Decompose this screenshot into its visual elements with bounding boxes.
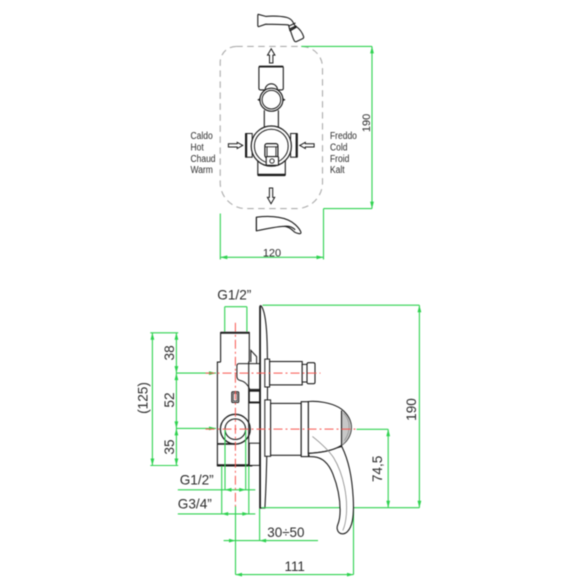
handle flange <box>265 400 271 456</box>
arrows at body edge (centerline ticks) <box>209 371 216 375</box>
svg-text:120: 120 <box>263 247 281 259</box>
dim 111 line <box>236 574 354 576</box>
green dimension lines (bottom drawing) <box>150 305 419 574</box>
arrowheads 120 <box>220 255 227 259</box>
plate-left extension for 30÷50 <box>259 509 261 541</box>
upper boss behind plate <box>237 364 260 390</box>
svg-text:111: 111 <box>285 559 305 574</box>
svg-text:190: 190 <box>361 114 373 132</box>
dim 120 extension right <box>323 209 325 260</box>
body step line tangent to port circle <box>217 443 235 445</box>
lever highlight line <box>312 436 346 530</box>
valve top rectangle thick top edge <box>259 66 283 68</box>
dim 74,5 extension <box>357 428 389 430</box>
dim 190 line <box>371 46 373 208</box>
extension at shower centerline <box>176 372 216 374</box>
tube between circles <box>264 110 278 128</box>
base rectangle below valve <box>258 158 286 176</box>
svg-text:Hot: Hot <box>191 142 205 153</box>
dim 190 extension top <box>301 45 372 47</box>
G1/2 bottom label line <box>178 489 256 491</box>
dim (125) line <box>151 333 153 466</box>
green dimensions of top diagram <box>220 46 372 259</box>
chain dim line 38-52-35 <box>175 333 177 466</box>
dim 120 extension left <box>219 214 221 260</box>
right port block <box>291 134 298 158</box>
shower outlet barrel <box>270 362 303 385</box>
svg-text:G1/2”: G1/2” <box>180 473 214 488</box>
top supply pipe <box>221 333 250 363</box>
svg-text:52: 52 <box>162 392 177 407</box>
svg-text:G3/4”: G3/4” <box>178 497 212 512</box>
svg-text:190: 190 <box>404 398 419 421</box>
small circle inner <box>262 90 281 109</box>
handle lever (drawn over green) <box>308 447 353 534</box>
svg-text:Chaud: Chaud <box>191 153 216 164</box>
handle dome <box>308 401 351 453</box>
arrowheads 111 <box>236 573 243 577</box>
cartridge plate <box>266 157 278 166</box>
dim G1/2 top bracket <box>225 306 247 308</box>
tub spout icon <box>256 217 301 234</box>
wall plate <box>260 306 268 508</box>
handle cup <box>271 403 302 455</box>
body bottom thick edge <box>217 464 252 466</box>
dim 74,5 line <box>387 429 389 507</box>
handle tip vertical for 111 <box>353 508 355 575</box>
arrowheads G1/2 bottom <box>225 488 232 492</box>
svg-text:74,5: 74,5 <box>370 456 385 482</box>
left flow arrow <box>228 142 242 148</box>
svg-text:Freddo: Freddo <box>330 130 357 141</box>
svg-text:Kalt: Kalt <box>330 165 345 176</box>
shower outlet end cap <box>307 363 315 384</box>
bottom port circle outer <box>220 414 250 444</box>
down arrow (outlet to spout) <box>267 188 274 204</box>
svg-text:(125): (125) <box>135 382 150 414</box>
small circle outer <box>260 88 283 111</box>
big circle outer <box>251 126 291 166</box>
G3/4 verticals <box>221 466 223 514</box>
svg-text:G1/2”: G1/2” <box>217 288 251 303</box>
svg-text:35: 35 <box>162 439 177 454</box>
svg-text:38: 38 <box>162 345 177 360</box>
arrowheads (125) <box>151 333 155 340</box>
svg-text:Warm: Warm <box>191 165 214 176</box>
valve top rectangle <box>259 66 283 90</box>
G1/2 bottom verticals <box>224 430 226 490</box>
arrowheads chain 38/52/35 <box>175 333 179 340</box>
dim 190 line <box>418 305 420 508</box>
svg-text:30÷50: 30÷50 <box>267 525 304 540</box>
cartridge screw <box>270 159 274 163</box>
shower outlet centerline <box>206 372 321 374</box>
dim 190 extension bottom <box>324 208 373 210</box>
bottom port circle inner <box>225 419 246 440</box>
arrowheads G3/4 <box>222 512 229 516</box>
vertical centerline of valve <box>234 323 236 507</box>
extension at handle centerline <box>176 427 216 429</box>
stem tip left <box>258 98 262 102</box>
valve body slab <box>217 362 252 466</box>
lower boss block (mid) <box>249 390 259 402</box>
dome sphere crescent shading <box>342 411 352 446</box>
dome above small circle <box>265 84 277 90</box>
handle tip extension line <box>262 507 420 509</box>
dim 120 line <box>220 256 323 258</box>
svg-text:Cold: Cold <box>330 142 347 153</box>
extension at pipe top level <box>150 332 178 334</box>
shower outlet flange <box>265 359 270 387</box>
up arrow (outlet to shower) <box>268 49 275 63</box>
arrowheads 74,5 <box>386 429 390 436</box>
left port block <box>246 134 253 158</box>
plate top extension line <box>263 304 420 306</box>
shower head icon <box>258 14 304 41</box>
dim 30÷50 line <box>224 540 318 542</box>
svg-text:Caldo: Caldo <box>191 130 213 141</box>
stem tip right <box>281 98 285 102</box>
shower outlet neck <box>302 364 307 382</box>
dashed enclosure box <box>220 46 322 208</box>
dome face line <box>341 411 343 447</box>
lower boss block (bottom) <box>249 443 259 465</box>
G3/4 label line <box>178 513 256 515</box>
right flow arrow <box>300 142 314 148</box>
arrowheads 190 <box>370 46 374 53</box>
arrowheads 190 bottom <box>418 305 422 312</box>
svg-text:Froid: Froid <box>330 153 349 164</box>
arrowheads 30÷50 <box>229 539 236 543</box>
centerline vertical extension (below valve) <box>235 506 237 575</box>
cartridge stem <box>265 144 278 158</box>
big circle inner <box>254 129 288 163</box>
handle centerline <box>206 428 357 430</box>
wall plate back edge (thick) <box>259 307 261 509</box>
screw rectangle on body <box>232 392 239 403</box>
handle cup step <box>301 402 308 457</box>
red centerlines <box>206 323 357 507</box>
extension at body bottom level <box>150 465 178 467</box>
hot water labels <box>191 130 357 175</box>
chamfer bracket above boss <box>251 350 257 363</box>
